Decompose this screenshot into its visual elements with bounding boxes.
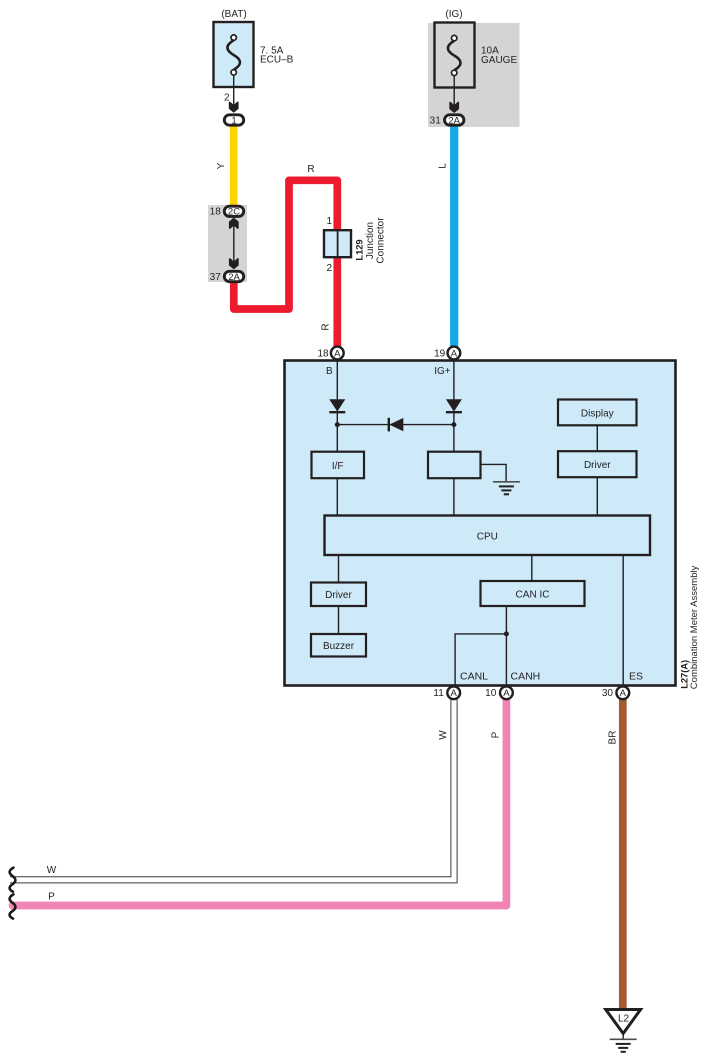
- svg-text:ES: ES: [629, 671, 643, 683]
- svg-text:W: W: [438, 730, 449, 740]
- svg-text:2: 2: [224, 93, 230, 104]
- svg-text:IG+: IG+: [434, 366, 451, 377]
- svg-text:(BAT): (BAT): [221, 9, 246, 20]
- svg-text:37: 37: [210, 272, 222, 283]
- svg-text:ECU–B: ECU–B: [260, 55, 294, 66]
- svg-text:30: 30: [602, 688, 614, 699]
- svg-text:Display: Display: [581, 409, 614, 420]
- svg-text:A: A: [451, 348, 458, 359]
- svg-text:CANH: CANH: [511, 671, 541, 683]
- svg-text:R: R: [321, 323, 332, 330]
- svg-text:GAUGE: GAUGE: [481, 55, 517, 66]
- svg-text:10: 10: [485, 688, 497, 699]
- svg-text:L: L: [438, 163, 449, 169]
- svg-text:Driver: Driver: [325, 590, 352, 601]
- svg-text:P: P: [491, 731, 502, 738]
- svg-text:Connector: Connector: [375, 217, 386, 264]
- svg-text:(IG): (IG): [445, 9, 462, 20]
- svg-text:BR: BR: [608, 731, 619, 745]
- svg-text:R: R: [307, 164, 314, 175]
- svg-text:I/F: I/F: [332, 461, 344, 472]
- svg-text:18: 18: [210, 207, 222, 218]
- svg-text:L2: L2: [618, 1014, 630, 1025]
- svg-text:A: A: [334, 348, 341, 359]
- svg-text:31: 31: [430, 115, 442, 126]
- svg-text:A: A: [620, 688, 627, 699]
- svg-text:18: 18: [317, 349, 329, 360]
- svg-text:1: 1: [231, 115, 236, 126]
- svg-text:2A: 2A: [228, 272, 240, 283]
- svg-text:CAN IC: CAN IC: [516, 590, 550, 601]
- svg-text:B: B: [326, 366, 333, 377]
- svg-text:Y: Y: [216, 162, 227, 169]
- svg-text:Combination Meter Assembly: Combination Meter Assembly: [689, 565, 700, 689]
- svg-text:CPU: CPU: [477, 532, 498, 543]
- svg-text:19: 19: [434, 349, 446, 360]
- svg-text:A: A: [503, 688, 510, 699]
- svg-text:P: P: [48, 892, 55, 903]
- svg-text:1: 1: [326, 216, 332, 227]
- svg-text:2C: 2C: [228, 207, 240, 218]
- svg-text:2A: 2A: [448, 115, 460, 126]
- svg-text:W: W: [47, 865, 57, 876]
- svg-text:L129: L129: [354, 239, 364, 260]
- svg-text:2: 2: [326, 263, 332, 274]
- svg-text:Driver: Driver: [584, 460, 611, 471]
- svg-text:Buzzer: Buzzer: [323, 641, 355, 652]
- svg-text:11: 11: [433, 688, 444, 699]
- svg-text:CANL: CANL: [460, 671, 488, 683]
- svg-text:L27(A): L27(A): [679, 660, 689, 689]
- svg-text:A: A: [451, 688, 458, 699]
